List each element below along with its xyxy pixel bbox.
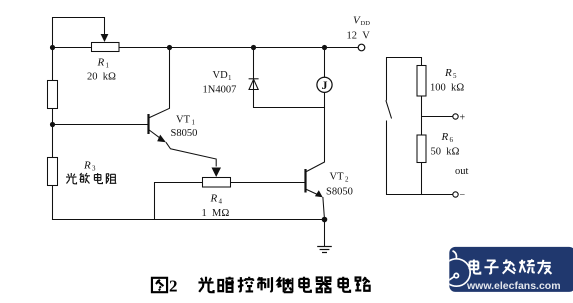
svg-text:1: 1 [192,119,196,127]
diode VD1 1N4007 [249,79,259,90]
terminal + output [453,114,458,119]
svg-text:2: 2 [345,176,349,184]
svg-text:5: 5 [453,72,457,80]
transistor VT1 S8050 [149,48,217,167]
resistor R5 100k [417,66,426,97]
resistor R6 50k [417,135,426,163]
svg-text:R: R [97,57,105,69]
svg-text:50 kΩ: 50 kΩ [431,147,460,158]
watermark logo [438,251,471,289]
svg-text:1 MΩ: 1 MΩ [202,208,230,219]
svg-text:6: 6 [450,136,454,144]
svg-text:1N4007: 1N4007 [203,85,237,96]
svg-text:4: 4 [219,198,223,206]
wire relay/VT2 collector column [324,48,326,163]
svg-text:R: R [444,67,452,79]
ground [317,247,332,253]
right sense divider circuit wires [386,58,453,195]
svg-text:−: − [460,190,466,201]
terminal VDD (12 V) [358,44,365,51]
wire VT2 emitter to ground [323,198,325,247]
wire R4 right to VT2 base [231,182,306,184]
svg-text:1: 1 [106,62,110,70]
junction: R2/R3 node to VT1 base [50,122,55,127]
wire R4 left leg [155,183,203,220]
wire VD1 branch [254,48,325,108]
svg-text:2: 2 [169,277,178,296]
junction: R1 left / supply rail [50,45,55,50]
terminal - output [453,192,458,197]
svg-text:20 kΩ: 20 kΩ [87,72,116,83]
svg-text:S8050: S8050 [171,128,198,139]
wire VT1 base [53,124,149,126]
label photoresistor (guang min dian zu) [66,173,116,184]
caption: figure 2, light-dark controlled relay circuit [152,277,370,296]
wire top rail [53,47,359,49]
watermark text dianzifashaoyou [470,259,552,273]
relay coil J [317,77,332,92]
svg-text:VT: VT [330,172,345,183]
svg-text:R: R [83,160,91,172]
svg-text:3: 3 [92,165,96,173]
switch blade [386,101,391,118]
wire bottom rail [53,219,325,221]
svg-text:1: 1 [228,74,232,82]
wire left column [52,48,54,220]
resistor R4 1M (pot) [203,168,231,188]
svg-text:VT: VT [176,115,191,126]
resistor R1 20k (pot) [92,34,120,52]
wire R5-R6 middle, + branch [422,96,454,135]
svg-text:R: R [210,193,218,205]
svg-text:+: + [460,113,466,124]
wire R6 bottom [421,163,423,195]
svg-text:www.elecfans.com: www.elecfans.com [466,280,561,292]
wire top [387,58,422,101]
transistor VT2 S8050 [306,162,325,197]
watermark elecfans box [449,247,573,292]
svg-text:VD: VD [213,70,229,81]
wire lower left [387,121,454,195]
junction: VT2 emitter / ground rail [322,217,328,223]
junction: VD1 cathode on rail [251,45,256,50]
resistor R3 photoresistor body [48,158,58,186]
svg-text:100 kΩ: 100 kΩ [430,83,464,94]
junction: VT1 collector on rail [167,45,172,50]
svg-text:out: out [455,166,469,177]
junction: relay coil on rail [322,45,327,50]
svg-text:J: J [322,78,328,92]
svg-text:12 V: 12 V [347,31,371,42]
svg-text:S8050: S8050 [326,187,353,198]
wire top loop over R1 [53,18,105,48]
svg-text:R: R [441,131,449,143]
svg-text:DD: DD [361,20,371,27]
resistor R2 (upper left, unlabeled) [48,81,58,109]
